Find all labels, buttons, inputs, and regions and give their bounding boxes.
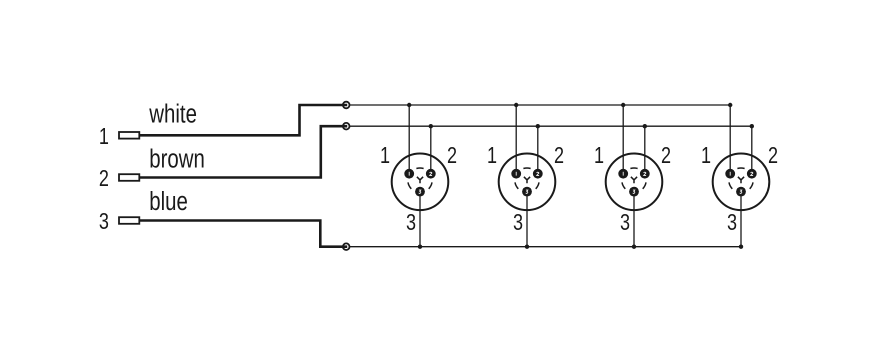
X1 pin 1 [404, 169, 414, 179]
junction node bus2/X1 [429, 124, 433, 128]
wire drop X1 pin2 [430, 126, 432, 174]
X2 pin 3 [522, 187, 532, 197]
lead 3 wire-end terminal [119, 217, 139, 224]
wire drop X1 pin1 [408, 105, 410, 174]
svg-text:blue: blue [149, 187, 188, 216]
svg-text:1: 1 [701, 143, 711, 169]
connector X1 keyway dashes [408, 168, 432, 189]
X1 pin 3 [415, 187, 425, 197]
wire drop X3 pin2 [644, 126, 646, 174]
svg-text:3: 3 [620, 210, 630, 236]
junction node bus2/X4 [750, 124, 754, 128]
X3 pin 3 [629, 187, 639, 197]
wire drop X3 pin3 [633, 192, 635, 247]
wire bus 2 (brown net) [350, 125, 752, 127]
wire drop X2 pin2 [537, 126, 539, 174]
svg-text:brown: brown [149, 144, 205, 173]
connector X2 center key mark [524, 177, 530, 184]
svg-text:2: 2 [768, 143, 778, 169]
svg-text:3: 3 [99, 209, 109, 235]
wire drop X3 pin1 [622, 105, 624, 174]
X3 pin 1 [618, 169, 628, 179]
junction node bus1/X2 [514, 103, 518, 107]
connector X2 keyway dashes [515, 168, 539, 189]
wire lead 2 (brown) [139, 126, 347, 177]
wire drop X4 pin3 [740, 192, 742, 247]
svg-text:3: 3 [406, 210, 416, 236]
svg-text:2: 2 [661, 143, 671, 169]
junction node bus3/X2 [525, 245, 529, 249]
connector X4 center key mark [738, 177, 744, 184]
junction node bus1/X4 [728, 103, 732, 107]
node bus 1 terminal circle [343, 102, 350, 109]
svg-text:1: 1 [594, 143, 604, 169]
node bus 3 terminal circle [343, 243, 350, 250]
svg-text:1: 1 [99, 124, 109, 150]
svg-text:2: 2 [99, 166, 109, 192]
lead 1 wire-end terminal [119, 132, 139, 139]
wire drop X1 pin3 [419, 192, 421, 247]
wire lead 1 (white) [139, 105, 347, 135]
node bus 2 terminal circle [343, 123, 350, 130]
wire drop X2 pin1 [515, 105, 517, 174]
connector X4 body (M8 male face) [713, 154, 770, 211]
svg-text:2: 2 [554, 143, 564, 169]
wire bus 1 (white net) [350, 104, 730, 106]
svg-text:3: 3 [513, 210, 523, 236]
junction node bus3/X4 [739, 245, 743, 249]
X2 pin 1 [511, 169, 521, 179]
junction node bus1/X1 [407, 103, 411, 107]
wire drop X2 pin3 [526, 192, 528, 247]
connector X3 body (M8 male face) [606, 154, 663, 211]
X1 pin 2 [426, 169, 436, 179]
junction node bus2/X3 [643, 124, 647, 128]
X4 pin 3 [736, 187, 746, 197]
connector X1 body (M8 male face) [392, 154, 449, 211]
lead 2 wire-end terminal [119, 174, 139, 181]
wire lead 3 (blue) [139, 221, 347, 247]
connector X3 center key mark [631, 177, 637, 184]
wire drop X4 pin2 [751, 126, 753, 174]
svg-text:1: 1 [380, 143, 390, 169]
X3 pin 2 [640, 169, 650, 179]
svg-text:2: 2 [447, 143, 457, 169]
connector X4 keyway dashes [729, 168, 753, 189]
junction node bus3/X3 [632, 245, 636, 249]
connector X3 keyway dashes [622, 168, 646, 189]
junction node bus1/X3 [621, 103, 625, 107]
X2 pin 2 [533, 169, 543, 179]
connector X1 center key mark [417, 177, 423, 184]
connector X2 body (M8 male face) [499, 154, 556, 211]
wire drop X4 pin1 [729, 105, 731, 174]
svg-text:3: 3 [727, 210, 737, 236]
junction node bus3/X1 [418, 245, 422, 249]
junction node bus2/X2 [536, 124, 540, 128]
X4 pin 2 [747, 169, 757, 179]
svg-text:1: 1 [487, 143, 497, 169]
wire bus 3 (blue net) [350, 246, 741, 248]
X4 pin 1 [725, 169, 735, 179]
svg-text:white: white [148, 99, 197, 128]
